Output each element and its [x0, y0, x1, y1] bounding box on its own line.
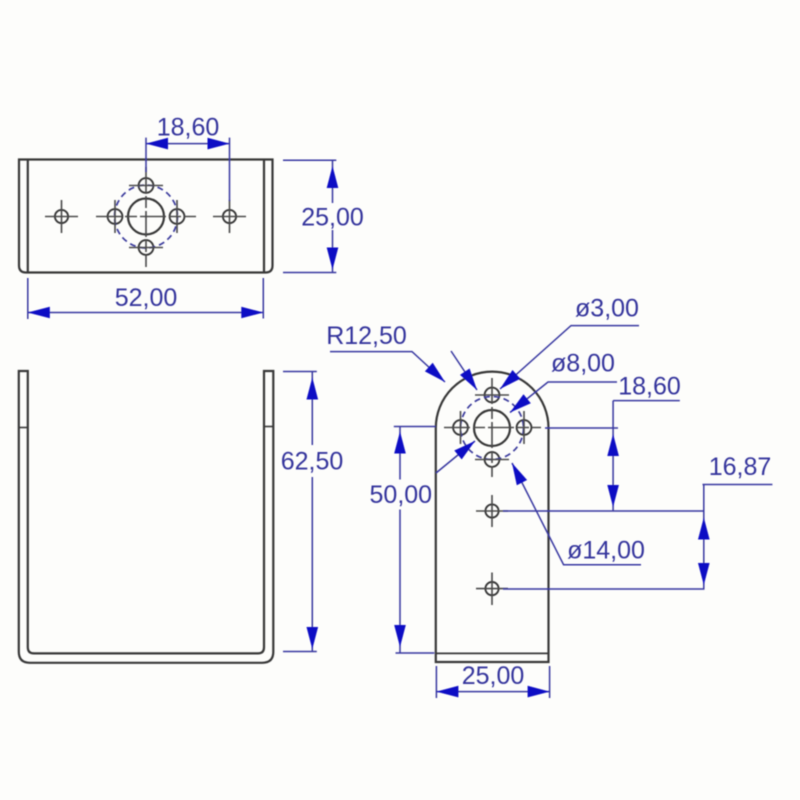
crosshair far-left hole	[45, 200, 78, 233]
arrows 25,00 bottom	[436, 686, 458, 698]
bolt hole right (tab)	[517, 420, 532, 435]
dim 25,00 ext lines	[283, 160, 336, 272]
crosshair right bolt hole (tab)	[523, 411, 525, 444]
dim 25,00 bottom line	[436, 691, 549, 693]
dim 62,50	[283, 372, 317, 652]
dim 25,00 line	[332, 160, 334, 272]
svg-text:18,60: 18,60	[157, 114, 220, 142]
ext line hole2 level	[503, 510, 705, 512]
dim 50,00 line	[399, 427, 401, 654]
leader o3,00	[500, 326, 639, 389]
bolt hole bottom	[139, 240, 154, 255]
bolt hole right	[170, 209, 185, 224]
svg-text:50,00: 50,00	[370, 481, 433, 509]
leader o14,00	[512, 463, 641, 565]
dim 18,60 right landing+line	[613, 401, 680, 511]
tab outline	[436, 372, 549, 662]
svg-text:R12,50: R12,50	[326, 322, 407, 350]
dim 25,00 bottom ext lines	[436, 666, 549, 698]
hole 2 (tab)	[485, 504, 498, 517]
crosshair hole 3	[476, 573, 508, 606]
big hole (ø8)	[474, 410, 510, 446]
svg-text:25,00: 25,00	[462, 662, 525, 690]
bolt hole bottom (tab)	[485, 452, 500, 467]
svg-text:52,00: 52,00	[115, 284, 178, 312]
left bend line	[27, 160, 29, 273]
bolt circle dashed (tab)	[461, 397, 524, 460]
arrow R12,50	[425, 363, 445, 382]
centerline vertical (top view)	[145, 167, 147, 267]
bolt hole top (tab)	[485, 388, 500, 403]
arrow pointer from edge	[454, 441, 475, 459]
ext line hole3 level	[503, 588, 705, 590]
crosshair left bolt hole (tab)	[460, 411, 462, 444]
crosshair far-right hole	[213, 200, 246, 233]
dim 16,87 landing+line	[703, 485, 773, 590]
svg-text:ø14,00: ø14,00	[567, 537, 645, 565]
bolt hole top	[139, 178, 154, 193]
arrows 52,00	[28, 307, 50, 319]
right bend line	[263, 160, 265, 273]
dim 52,00 ext lines	[28, 278, 263, 319]
svg-text:62,50: 62,50	[281, 448, 344, 476]
leader center pointer B	[451, 351, 477, 390]
dim 18,60 ext lines	[146, 138, 230, 201]
leader center pointer from edge	[436, 441, 475, 473]
centerline vertical (tab)	[491, 378, 493, 477]
hole 3 (tab)	[485, 582, 498, 595]
bolt hole left (tab)	[453, 420, 468, 435]
crosshair bottom bolt hole	[129, 247, 163, 249]
leader o8,00	[510, 382, 617, 413]
crosshair left bolt hole	[114, 200, 116, 233]
bolt hole left	[108, 209, 123, 224]
crosshair top bolt hole	[129, 185, 163, 187]
crosshair top bolt hole (tab)	[475, 394, 509, 396]
mount hole far left	[55, 210, 68, 223]
svg-text:ø3,00: ø3,00	[575, 295, 639, 323]
arrow pointer B	[460, 369, 477, 391]
arrows 62,50	[307, 378, 319, 400]
arrows 18,60 top	[146, 138, 168, 150]
arrows 25,00	[327, 166, 339, 188]
crosshair right bolt hole	[176, 200, 178, 233]
dim 50,00 ext lines	[394, 427, 436, 654]
svg-text:ø8,00: ø8,00	[551, 350, 615, 378]
arrows 18,60 right	[607, 434, 619, 456]
dim 52,00 line	[28, 312, 263, 314]
tab bend line	[436, 652, 549, 654]
mount hole far right	[223, 210, 236, 223]
centerline horizontal (top view)	[96, 216, 196, 218]
svg-text:16,87: 16,87	[709, 453, 772, 481]
dim 62,50 ext lines	[283, 372, 317, 652]
crosshair hole 2	[476, 495, 508, 527]
arrow o14,00	[512, 463, 527, 485]
bend tick left wall	[19, 427, 28, 429]
dim 18,60 line	[146, 143, 230, 145]
arrow o8,00	[510, 394, 531, 412]
bolt circle dashed (top view)	[115, 185, 178, 248]
dim 62,50 line	[311, 372, 313, 652]
bend tick right wall	[264, 426, 273, 428]
U channel outline	[19, 371, 273, 663]
leader R12,50	[330, 352, 445, 382]
center hole	[128, 199, 164, 235]
svg-text:25,00: 25,00	[301, 204, 364, 232]
svg-text:18,60: 18,60	[618, 373, 681, 401]
ext line center level (18,60)	[545, 427, 618, 429]
centerline horizontal (tab)	[444, 427, 541, 429]
plate outline	[19, 160, 273, 273]
arrows 50,00	[394, 432, 406, 454]
crosshair bottom bolt hole (tab)	[475, 459, 509, 461]
arrow o3,00	[500, 370, 520, 389]
arrows 16,87	[698, 518, 710, 540]
